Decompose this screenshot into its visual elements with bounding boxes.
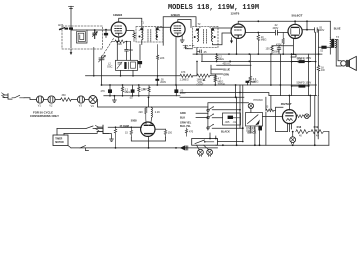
- node dots line A: [196, 53, 320, 55]
- switch S3 timer line: [57, 126, 103, 133]
- wire V6 grid left: [121, 126, 141, 128]
- wire lamp leads: [197, 145, 209, 149]
- capacitor tone out blob: [319, 46, 331, 53]
- wire bus97.3: [180, 96, 244, 98]
- capacitor .05 stub T2: [197, 50, 207, 54]
- resistor R13 50cycle: [61, 94, 72, 101]
- capacitor blob x110: [101, 85, 113, 96]
- capacitor blob x176.3: [174, 85, 186, 96]
- AC plug P1: [95, 125, 108, 133]
- wire V4 plate up: [294, 21, 296, 24]
- tube V6 output socket: [141, 122, 155, 136]
- svg-text:35Z5GT: 35Z5GT: [281, 102, 292, 106]
- node dots plug line: [115, 126, 132, 128]
- resistor R12: [266, 106, 276, 112]
- svg-text:CONVERSIONS ONLY: CONVERSIONS ONLY: [30, 114, 59, 118]
- node dots rail B: [115, 147, 177, 149]
- svg-text:BLUE: BLUE: [334, 27, 341, 30]
- svg-text:430: 430: [129, 49, 134, 52]
- svg-text:.01: .01: [233, 121, 237, 124]
- svg-text:1M: 1M: [143, 88, 146, 91]
- svg-text:BLK-YEL: BLK-YEL: [180, 125, 191, 128]
- wire rail B: [71, 147, 218, 149]
- svg-text:.05: .05: [203, 51, 207, 54]
- loop antenna L1 winding: [77, 30, 88, 43]
- wire switch to V5: [263, 116, 283, 118]
- wire rail A: [216, 144, 329, 146]
- IF transformer T1 secondary: [156, 30, 157, 40]
- svg-text:BLK: BLK: [180, 116, 185, 119]
- capacitor C9 coupling: [273, 24, 289, 35]
- antenna ANT mast: [69, 6, 74, 27]
- pilot lamp I1: [198, 149, 204, 156]
- svg-text:OSC: OSC: [107, 66, 113, 69]
- resistor below T1 sec: [157, 45, 165, 76]
- capacitor blob x132.5: [129, 85, 135, 100]
- node dot AF: [257, 32, 259, 34]
- resistor R10 150: [266, 46, 274, 54]
- connector J1: [181, 146, 188, 150]
- onoff switch box S5: [246, 113, 263, 133]
- svg-text:30MFD 150V: 30MFD 150V: [297, 57, 312, 60]
- wire vertical x202: [201, 54, 203, 61]
- wire V5 plate riser: [288, 96, 290, 111]
- wire x270.9 drop: [270, 96, 272, 111]
- speaker SP1: [341, 56, 357, 70]
- ground plug lead: [108, 134, 113, 142]
- wire bus95.5 right: [269, 95, 317, 97]
- wire V4 screen to C11: [302, 21, 307, 29]
- capacitor C3 padder: [125, 42, 134, 61]
- wire osc box bottoms: [121, 70, 134, 75]
- capacitor C10 bypass: [273, 46, 281, 54]
- svg-text:BLACK: BLACK: [221, 131, 230, 134]
- svg-text:MOTOR: MOTOR: [55, 142, 64, 144]
- wire line A y54: [193, 53, 322, 55]
- volume control R5: [197, 74, 211, 87]
- svg-text:50MFD 150V: 50MFD 150V: [297, 81, 312, 84]
- svg-text:PHONO: PHONO: [254, 99, 263, 102]
- resistor R19: [311, 126, 329, 137]
- svg-text:BLUE: BLUE: [223, 69, 230, 72]
- IF transformer T2 core: [204, 30, 207, 44]
- svg-text:50B5: 50B5: [131, 120, 138, 123]
- svg-text:470: 470: [189, 130, 194, 133]
- wire B+ riser T1: [163, 17, 196, 45]
- wire bus85: [102, 84, 317, 86]
- svg-text:1W: 1W: [321, 69, 325, 72]
- wire switch drops: [250, 126, 259, 145]
- wire T1 sec to V2 grid: [157, 27, 170, 29]
- resistor R11 1K: [317, 66, 325, 96]
- wire mid verticals: [236, 54, 281, 141]
- node dot heater junction: [292, 131, 294, 133]
- svg-text:330: 330: [62, 94, 67, 97]
- wire stub BLUE: [211, 65, 223, 74]
- resistor R4 4.7MEG: [211, 75, 226, 86]
- resistor R15: [125, 127, 133, 137]
- wire AF line: [245, 32, 275, 34]
- wire phono to switch: [250, 108, 252, 112]
- svg-text:20MF: 20MF: [273, 50, 280, 53]
- svg-text:150: 150: [168, 131, 173, 134]
- IF transformer T1 dashed box: [136, 27, 163, 43]
- node dot pot: [196, 61, 198, 63]
- svg-text:2.2K: 2.2K: [155, 111, 160, 114]
- resistor x122.5: [121, 85, 130, 96]
- dashed gang segment right: [183, 44, 195, 46]
- resistor R16: [164, 129, 172, 137]
- wire vertical T2 bottom: [196, 48, 198, 55]
- resistor 2.2MEG: [216, 54, 225, 61]
- wire V6 right cathode: [156, 128, 166, 130]
- wire V3 plate top bus: [238, 21, 330, 24]
- wire osc feedback vertical: [129, 42, 131, 61]
- socket heater D: [89, 96, 97, 109]
- wire T3 to speaker: [336, 40, 342, 66]
- speaker field stubs: [291, 55, 305, 65]
- svg-text:.05: .05: [129, 97, 133, 100]
- wire bus75.8: [86, 48, 181, 76]
- node dots below V1: [117, 41, 128, 43]
- resistor R14: [139, 107, 148, 122]
- wire black link to switch: [218, 141, 243, 143]
- wire x275.5 vertical: [276, 107, 288, 131]
- capacitor C5A below T1: [138, 45, 142, 68]
- tone box enclosure: [223, 113, 241, 125]
- wire gang dashed mechanical: [102, 39, 114, 57]
- svg-text:47 OHM: 47 OHM: [120, 125, 129, 128]
- ground V3 arrow: [230, 38, 233, 44]
- resistor R18: [296, 126, 310, 137]
- pilot lamp I4: [305, 114, 310, 119]
- node dots bus85: [101, 84, 310, 86]
- oscillator coil box L2: [107, 60, 138, 70]
- svg-text:200V: 200V: [160, 81, 166, 84]
- wire x265.9 vertical: [237, 97, 266, 145]
- inductor L4: [151, 107, 160, 122]
- wire tone mid lines: [212, 110, 243, 128]
- socket heater C: [77, 96, 84, 108]
- svg-text:1.2MEG: 1.2MEG: [180, 79, 189, 82]
- svg-text:MODELS 118, 119W, 119M: MODELS 118, 119W, 119M: [168, 4, 259, 12]
- wire V6 bottom drops: [131, 137, 165, 148]
- wire rail A right riser: [328, 132, 330, 146]
- wire V2 AVC drop: [175, 37, 177, 85]
- tube V4 50L6GT: [288, 24, 302, 38]
- resistor R17 line cord: [114, 127, 116, 148]
- wire R7 to pot: [193, 75, 197, 77]
- wire right verticals: [309, 54, 316, 95]
- loop antenna enclosure dashed: [62, 26, 103, 49]
- tube V1 12BE6: [111, 22, 126, 37]
- node dots line B: [216, 61, 251, 63]
- resistor x186.5: [185, 128, 193, 136]
- svg-text:GRN: GRN: [180, 112, 186, 115]
- tube V2 12BA6: [171, 22, 186, 37]
- wire V5 right heater tap: [295, 115, 298, 117]
- capacitor C1 antenna series: [69, 27, 73, 29]
- wire stub GRN: [211, 73, 223, 75]
- resistor R9 3.3MEG: [249, 54, 259, 85]
- svg-text:12BE6: 12BE6: [113, 13, 123, 17]
- svg-text:MEG: MEG: [261, 38, 267, 41]
- filter capacitor C13A 30MFD: [291, 54, 312, 96]
- wire tone top line: [208, 102, 249, 104]
- svg-text:400V: 400V: [319, 29, 325, 32]
- svg-text:MEG: MEG: [253, 80, 259, 83]
- svg-text:47K: 47K: [101, 90, 106, 93]
- capacitor blob below switch: [258, 126, 262, 130]
- wire V1 plate to T1: [119, 18, 142, 28]
- switch S2 50cycle: [12, 95, 24, 98]
- pilot lamp I3: [290, 137, 296, 144]
- tube V5 35Z5GT: [282, 110, 296, 124]
- wire bus92.5: [180, 93, 269, 96]
- wire 50cycle heater line: [24, 98, 89, 100]
- node dot plate riser: [148, 96, 150, 98]
- wire V4 cathode: [272, 39, 293, 55]
- node ANT terminal arrow: [58, 24, 65, 30]
- svg-text:.005: .005: [225, 121, 230, 124]
- node dots box top: [209, 138, 217, 140]
- svg-text:GRN-YEL: GRN-YEL: [180, 121, 192, 124]
- svg-text:ANT: ANT: [58, 24, 63, 27]
- wire into box top: [210, 133, 216, 139]
- resistor grid V4 470K: [276, 33, 284, 55]
- svg-text:150: 150: [266, 47, 271, 50]
- svg-text:12BA6: 12BA6: [171, 13, 181, 17]
- wire V5 bottom pins: [287, 123, 291, 132]
- wire V2 plate to T2: [178, 20, 191, 28]
- capacitor C4: [155, 76, 166, 85]
- capacitor tone .005 on bus: [246, 81, 256, 85]
- svg-text:GRN: GRN: [223, 74, 229, 77]
- ground V2 cathode: [180, 36, 184, 42]
- wire T1 pri bottom drop: [141, 40, 143, 45]
- wire V6 plate riser: [97, 97, 208, 107]
- wire V1 bottom: [118, 37, 120, 42]
- timer box M1: [53, 135, 68, 146]
- node dots bus75.8: [120, 75, 159, 77]
- svg-text:MEG: MEG: [125, 91, 131, 94]
- wire bus95.8: [104, 95, 180, 97]
- node dots tone: [239, 109, 244, 129]
- wire plug top to V6: [108, 126, 141, 128]
- tube V3 12AT6: [231, 24, 245, 38]
- wire timer bottom to rail: [68, 146, 71, 148]
- wire line C y65.3: [217, 64, 251, 66]
- resistor x149: [143, 85, 150, 96]
- svg-text:400V: 400V: [273, 27, 279, 30]
- capacitor C2 grid: [104, 30, 108, 38]
- capacitor C1A blob: [65, 28, 69, 30]
- wire T2 sec to V3: [213, 28, 232, 45]
- filter capacitor C13B 50MFD: [291, 81, 312, 87]
- svg-text:50L6GT: 50L6GT: [292, 13, 303, 17]
- wire loop top to grid line: [71, 29, 111, 31]
- resistor R7 osc grid 1.2MEG: [180, 71, 193, 82]
- svg-text:TIMER: TIMER: [55, 138, 62, 140]
- wire antenna lead inside box: [70, 30, 72, 48]
- IF transformer T1 core: [148, 30, 151, 42]
- trimmer arrows T1: [139, 27, 160, 31]
- svg-text:22K: 22K: [160, 57, 165, 60]
- node dots top bus: [257, 20, 308, 22]
- phono jack J2: [248, 99, 263, 108]
- resistor R8 10MEG: [257, 33, 267, 55]
- svg-text:12AT6: 12AT6: [231, 11, 240, 15]
- node dot screen: [306, 29, 308, 31]
- wire pot left up: [196, 61, 198, 75]
- socket heater B: [48, 96, 55, 108]
- wire lamp riser: [309, 96, 310, 117]
- svg-text:MEG: MEG: [218, 58, 224, 61]
- wire lamp I3 lead: [292, 132, 294, 137]
- resistor V1 cathode: [133, 33, 135, 42]
- IF transformer T2 dashed box: [193, 27, 219, 48]
- variable capacitor C1A tuning section: [99, 55, 106, 85]
- node dots right: [308, 61, 310, 87]
- switch S4 on rail: [80, 146, 89, 151]
- wire AC pair verticals: [315, 96, 318, 146]
- ground main: [113, 96, 117, 103]
- plug P2 50cycle: [2, 93, 12, 99]
- ground loop return arrow: [70, 49, 73, 55]
- svg-text:R18: R18: [297, 126, 302, 129]
- svg-text:KC: KC: [228, 63, 232, 66]
- switch box S1: [192, 139, 218, 146]
- trimmer capacitor C1B: [92, 30, 97, 39]
- svg-text:47K: 47K: [181, 71, 186, 74]
- output transformer T3: [330, 36, 339, 54]
- svg-text:22K: 22K: [118, 43, 123, 46]
- IF transformer T2 primary: [198, 30, 199, 41]
- resistor heater tap: [297, 115, 305, 118]
- wire stub labels: [196, 113, 208, 117]
- node dots grid line: [94, 29, 107, 31]
- wire line B y61.4: [202, 60, 311, 62]
- capacitor C11: [307, 26, 325, 95]
- svg-text:.02: .02: [320, 50, 324, 53]
- wire timer top leads: [57, 129, 64, 136]
- pilot lamp I2: [207, 149, 213, 156]
- wire V1 cathode right: [126, 31, 134, 33]
- socket heater A: [36, 96, 43, 108]
- wire avc stub: [186, 45, 193, 49]
- svg-text:220: 220: [139, 111, 144, 114]
- svg-text:BLACK: BLACK: [248, 132, 257, 135]
- svg-text:TOTAL: TOTAL: [218, 83, 226, 86]
- IF transformer T2 secondary: [211, 30, 212, 41]
- IF transformer T1 primary: [142, 30, 143, 40]
- resistor x138.8: [138, 85, 146, 96]
- resistor R1 22K osc grid: [112, 40, 130, 46]
- wire plate bus corner to T3: [329, 21, 331, 37]
- wire V3 diode return: [236, 38, 238, 54]
- wire grid2 vertical: [116, 42, 118, 61]
- node dots buses2: [109, 92, 311, 99]
- node dots rail A: [222, 144, 316, 146]
- trimmer arrows T2: [196, 27, 215, 31]
- tone switch bracket: [207, 103, 214, 130]
